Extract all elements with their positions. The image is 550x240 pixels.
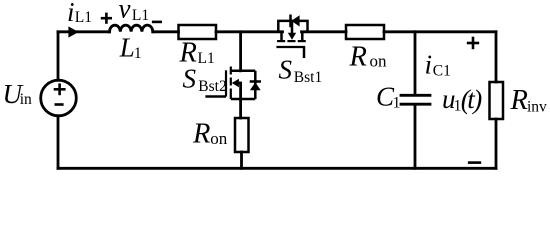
- resistor R_inv: [490, 82, 504, 119]
- S_Bst1 body arrow head: [288, 33, 296, 40]
- S_Bst1 diode cathode bar: [289, 15, 292, 28]
- svg-text:C1: C1: [433, 63, 451, 80]
- wire right drop to R_inv: [495, 32, 498, 82]
- resistor R_on top: [346, 25, 384, 39]
- plus sign top right: [101, 13, 481, 163]
- svg-text:in: in: [20, 91, 32, 108]
- S_Bst2 body arrow line: [237, 82, 241, 85]
- current arrow i_L1: [68, 26, 78, 37]
- capacitor C1 plates: [401, 94, 430, 97]
- wire left top: [57, 32, 60, 80]
- svg-text:on: on: [210, 129, 228, 148]
- wire S_Bst2 source to R_on bottom: [239, 83, 242, 118]
- svg-text:R: R: [510, 85, 528, 116]
- wire C1 bottom: [414, 106, 417, 169]
- wire top rail left segment: [58, 30, 110, 33]
- svg-text:L1: L1: [75, 9, 92, 26]
- minus sign v_L1: [152, 21, 162, 24]
- plus sign v_L1: [101, 17, 112, 20]
- wire R_inv to bottom rail: [495, 119, 498, 168]
- resistor R_L1: [179, 25, 217, 39]
- svg-text:L1: L1: [198, 50, 215, 67]
- minus sign bottom right: [468, 161, 481, 164]
- svg-text:1: 1: [134, 45, 142, 62]
- inductor L1 coil: [110, 25, 153, 32]
- S_Bst1 diode triangle: [291, 15, 299, 26]
- svg-text:v: v: [119, 0, 131, 23]
- svg-text:L1: L1: [132, 7, 149, 24]
- S_Bst1 body arrow line: [291, 22, 294, 34]
- wire left bottom: [57, 116, 60, 169]
- S_Bst2 diode cathode bar: [250, 80, 261, 83]
- wire S_Bst1 to R_on: [302, 30, 347, 33]
- svg-text:R: R: [349, 42, 367, 73]
- svg-text:L: L: [119, 33, 135, 63]
- S_Bst2 top stub: [231, 70, 256, 73]
- svg-text:R: R: [192, 119, 210, 150]
- svg-text:Bst2: Bst2: [198, 78, 226, 95]
- voltage source minus: [55, 103, 64, 106]
- MOSFET S_Bst2: [205, 67, 261, 100]
- S_Bst2 bottom stub: [231, 98, 256, 101]
- wire R_L1 to S_Bst1: [216, 30, 283, 33]
- S_Bst2 body arrow head: [232, 79, 239, 87]
- S_Bst1 channel dashes: [277, 40, 285, 42]
- S_Bst1 gate plate: [276, 46, 305, 48]
- source U_in circle: [41, 80, 77, 116]
- S_Bst1 source stub: [301, 31, 304, 41]
- wire R_on bottom to rail: [240, 152, 243, 168]
- S_Bst1 gate lead: [303, 47, 306, 58]
- S_Bst2 diode triangle: [250, 82, 261, 90]
- S_Bst2 gate plate: [225, 70, 227, 96]
- svg-text:): ): [471, 85, 482, 115]
- wire bottom rail: [58, 167, 496, 170]
- S_Bst2 body-diode branch: [254, 71, 257, 99]
- S_Bst2 gate lead: [205, 95, 226, 98]
- svg-text:S: S: [279, 55, 293, 85]
- MOSFET S_Bst1: [276, 15, 307, 59]
- voltage source plus: [54, 83, 66, 104]
- svg-text:on: on: [370, 52, 388, 71]
- svg-text:inv: inv: [527, 99, 547, 116]
- svg-text:1: 1: [393, 95, 401, 112]
- resistor R_on bottom: [235, 118, 249, 152]
- wire C1 top: [414, 32, 417, 94]
- svg-text:S: S: [183, 63, 197, 93]
- S_Bst1 body-diode loop: [278, 21, 307, 32]
- svg-text:i: i: [425, 50, 433, 80]
- svg-text:Bst1: Bst1: [294, 69, 322, 86]
- wire coil to R_L1: [153, 30, 179, 33]
- wire R_on to top-right corner: [384, 30, 496, 33]
- S_Bst2 channel dashes: [230, 67, 232, 75]
- S_Bst1 drain stub: [280, 31, 283, 41]
- wire S_Bst2 drain: [239, 32, 242, 71]
- svg-text:i: i: [67, 0, 75, 27]
